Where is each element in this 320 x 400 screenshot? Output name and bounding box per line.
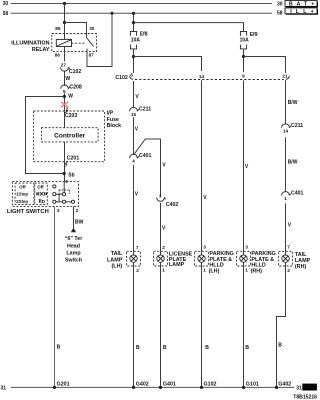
svg-text:Ef9: Ef9 [250,32,258,38]
svg-text:31: 31 [296,385,302,391]
svg-text:RELAY: RELAY [32,47,50,53]
svg-text:5: 5 [63,89,66,94]
svg-text:C401: C401 [139,153,152,159]
svg-text:B/W: B/W [288,100,298,106]
svg-text:C211: C211 [291,123,303,129]
svg-text:W: W [68,93,73,99]
svg-text:TAIL: TAIL [111,251,123,257]
svg-text:14: 14 [283,128,289,133]
svg-text:1: 1 [203,268,206,273]
svg-text:(LH): (LH) [112,264,123,270]
svg-text:Off: Off [19,185,26,190]
svg-text:G102: G102 [204,382,217,388]
svg-text:2: 2 [162,245,165,250]
svg-text:Lamp: Lamp [66,250,81,256]
svg-text:Switch: Switch [65,257,82,263]
svg-text:HLLD: HLLD [209,262,223,268]
svg-text:1Step: 1Step [16,192,28,197]
svg-text:G402: G402 [136,382,149,388]
svg-text:C201: C201 [67,155,80,161]
svg-text:B: B [136,345,140,351]
svg-text:27: 27 [61,63,67,68]
svg-text:1: 1 [245,268,248,273]
svg-text:GND: GND [304,385,316,391]
svg-text:31: 31 [1,385,7,391]
svg-text:BW: BW [75,219,84,225]
svg-text:Fuse: Fuse [107,117,119,123]
svg-text:C402: C402 [166,202,179,208]
svg-text:15: 15 [131,112,137,117]
svg-text:7: 7 [136,245,139,250]
svg-text:Controller: Controller [54,132,86,139]
svg-text:2: 2 [287,268,290,273]
svg-text:G101: G101 [246,382,259,388]
svg-text:30: 30 [3,1,9,7]
svg-text:7: 7 [287,245,290,250]
svg-text:58: 58 [3,11,9,17]
svg-text:C102: C102 [115,75,128,81]
svg-text:B: B [245,345,249,351]
svg-text:C102: C102 [69,69,82,75]
svg-text:7: 7 [65,163,68,168]
svg-text:B: B [205,345,209,351]
svg-text:B: B [278,343,282,349]
svg-text:85: 85 [55,26,61,31]
svg-text:LIGHT SWITCH: LIGHT SWITCH [7,209,49,215]
svg-text:3: 3 [57,208,60,214]
svg-text:9: 9 [242,74,245,79]
svg-text:G402: G402 [278,382,291,388]
svg-text:I/P: I/P [107,111,114,117]
svg-text:G401: G401 [163,382,176,388]
svg-text:C211: C211 [139,106,151,112]
svg-text:1: 1 [284,196,287,201]
svg-text:(RH): (RH) [251,269,263,275]
svg-text:Sb: Sb [68,172,74,178]
svg-text:3: 3 [245,245,248,250]
svg-text:Off: Off [37,185,44,190]
svg-text:B: B [57,344,61,350]
svg-text:87: 87 [89,53,95,58]
svg-text:21: 21 [282,73,288,78]
svg-text:30: 30 [89,26,95,31]
svg-text:1: 1 [162,267,165,272]
svg-text:14: 14 [199,74,205,79]
svg-text:10A: 10A [240,38,250,44]
svg-text:C208: C208 [69,85,82,91]
svg-text:“6” Ter: “6” Ter [65,236,83,242]
svg-text:ILLUMINATION: ILLUMINATION [11,41,49,47]
svg-text:3: 3 [203,245,206,250]
svg-text:3: 3 [159,194,162,199]
svg-text:LAMP: LAMP [169,262,185,268]
svg-text:W: W [65,76,70,82]
svg-text:C401: C401 [291,191,304,197]
svg-text:2Step: 2Step [16,199,28,204]
svg-text:2: 2 [76,208,79,214]
svg-text:30: 30 [277,1,283,7]
svg-text:Block: Block [107,123,121,129]
svg-text:Ef8: Ef8 [140,31,148,37]
svg-text:58: 58 [277,10,283,16]
svg-text:86: 86 [55,53,61,58]
svg-text:G201: G201 [57,382,70,388]
svg-text:10A: 10A [131,37,141,43]
svg-text:2: 2 [136,268,139,273]
svg-text:4: 4 [132,159,135,164]
svg-text:HLLD: HLLD [251,262,265,268]
svg-text:LAMP: LAMP [107,257,123,263]
svg-text:B/W: B/W [288,159,298,165]
svg-text:(LH): (LH) [209,269,220,275]
svg-text:D: D [42,199,45,204]
svg-text:C203: C203 [65,113,78,119]
svg-text:T8B15216: T8B15216 [293,394,317,400]
svg-text:Head: Head [67,243,80,249]
svg-text:(RH): (RH) [295,264,307,270]
svg-text:6: 6 [130,73,133,78]
svg-text:B: B [163,345,167,351]
